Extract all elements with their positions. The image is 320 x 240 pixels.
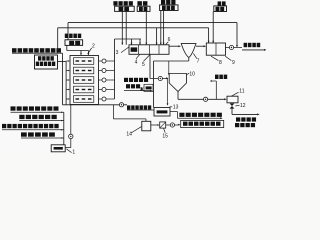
wire: pump discharge bus (114, 39, 116, 99)
tank cell 5 (74, 96, 94, 103)
svg-text:8: 8 (219, 60, 222, 66)
wire: sump to pump 15 (151, 124, 159, 126)
outlet pipe + pump row 3 (99, 79, 115, 81)
svg-text:11: 11 (239, 89, 244, 95)
outlet pipe + pump row 1 (99, 60, 115, 62)
label: hauled away by truck (235, 123, 255, 127)
box 15: sludge pump (160, 122, 166, 128)
label: boiler blowdown water (21, 132, 55, 136)
dosing drop lines from NaClO/alkali label (121, 11, 123, 44)
svg-text:3: 3 (116, 50, 119, 56)
inlet stub row 2 (66, 70, 69, 72)
svg-text:13: 13 (173, 104, 179, 110)
wire: header B drop into mixing basin (156, 28, 158, 45)
wire: box outlet to inlet bus (58, 61, 67, 63)
outlet pipe + pump row 5 (99, 98, 115, 100)
svg-text:2: 2 (92, 44, 95, 50)
label: alkali over acid box (top right) (218, 1, 226, 5)
wire: header B drop into neutralization box (208, 28, 210, 43)
small dosing box with star note (144, 84, 153, 91)
svg-text:14: 14 (126, 131, 132, 137)
label 13 pointer (170, 106, 173, 108)
tank 2: waste water adjusting basin (70, 56, 99, 105)
box 8/9: neutralization tanks (206, 43, 225, 55)
label 1 pointer (66, 149, 71, 153)
label 12 pointer (235, 104, 239, 107)
label: blowdown water (126, 84, 140, 88)
label 14 pointer (131, 127, 141, 133)
dosing drops from coagulant/antiscalant (160, 11, 162, 45)
wire: branch down to sewer line (167, 79, 169, 105)
wire: underline to inlet bus (12, 52, 63, 54)
mixer block in cell 1 (131, 47, 138, 51)
wire: header A down-leg to tank-side alkali box (67, 23, 69, 40)
label 7 pointer (193, 53, 196, 58)
star mark (140, 87, 143, 91)
wire: clarifier 7 sludge line (188, 58, 190, 61)
label: makeup-water treatment system drainage (12, 48, 61, 52)
basin 3-6: mixing & reaction basin (129, 45, 169, 55)
label 10 pointer (187, 73, 189, 74)
svg-text:10: 10 (189, 71, 195, 77)
box 11: sludge dewaterer (227, 96, 238, 103)
label 5 pointer (143, 55, 150, 62)
inlet stub row 4 (66, 89, 69, 91)
svg-text:12: 12 (240, 103, 246, 109)
label 11 pointer (231, 92, 238, 96)
label: NaClO over alkali box feeding mixing basin (113, 1, 132, 5)
svg-text:6: 6 (168, 37, 171, 43)
svg-text:9: 9 (232, 60, 235, 66)
wire: clarifier to box 8/9 arrow (196, 45, 205, 47)
label 2 pointer (88, 48, 92, 54)
label: raw water heater (124, 78, 148, 82)
wire: arrow into sludge drop line (124, 90, 151, 92)
svg-text:15: 15 (162, 134, 168, 140)
dosing drop from acid box into neutralization box (212, 12, 214, 44)
wire: collector down to sump pit (63, 112, 65, 145)
wire: separator outlet to new-plant spray arrow (170, 111, 178, 113)
wire: chemical header line B (58, 27, 209, 29)
label: dewatered (236, 117, 256, 121)
tank cell 2 (74, 67, 94, 74)
box 14: sludge sump (142, 121, 151, 131)
inlet bus (right) (65, 62, 67, 105)
label: coagulant over antiscalant box (161, 0, 175, 4)
wire: basin outlet arrow to clarifier 7 (169, 45, 180, 47)
tank cell 3 (74, 77, 94, 84)
tank cell 1 (74, 58, 94, 65)
wire: thickener underflow to sludge pump (177, 92, 179, 100)
label: to new plant boiler spraying (179, 113, 221, 117)
wire: filtrate return to waste water tank label (215, 81, 217, 99)
dosing drop line from alkali #2 (145, 11, 147, 44)
inlet stub row 1 (66, 60, 69, 62)
wire: feed header into mixing basin (115, 38, 142, 40)
wire: arrow under recycle tank label (242, 49, 265, 51)
tank cell 4 (74, 86, 94, 93)
inlet bus (left) (62, 53, 64, 105)
label: NaClO over alkali box above adjusting tank (65, 34, 81, 38)
wire: pump to old plant box (166, 124, 180, 126)
pit 1: waste water sump (51, 145, 65, 152)
label: plant-area oily drainage (127, 105, 151, 109)
label: air preheater washing water (11, 106, 59, 110)
wire: clarifier sludge branch down into thickener (168, 61, 170, 74)
wire: dewatered sludge drain, trucked away (231, 109, 233, 115)
thickener 10 (169, 74, 186, 92)
wire: chemical header line A (68, 22, 237, 24)
wire: header A down-leg to recycle water line (236, 23, 238, 47)
label 8 pointer (211, 56, 218, 60)
inlet stub row 5 (66, 98, 69, 100)
wire: pump line into thickener 10 (150, 78, 167, 80)
box 13: oil separator (154, 108, 170, 117)
label: boiler cleaning wastewater (19, 115, 56, 119)
wire: dosing down + header over tank (66, 45, 68, 50)
valve 12 below dewaterer (230, 103, 235, 106)
wire: header B left down-leg (57, 28, 59, 53)
wire: underline into separator 13 (127, 109, 154, 111)
label: alkali #2 (137, 1, 147, 5)
wire: oily water drain line with pump (63, 104, 128, 106)
svg-text:4: 4 (135, 59, 138, 65)
svg-text:5: 5 (142, 62, 145, 68)
wire: arrow pointing left under label (211, 80, 217, 82)
wire: treated water to recycle tank with pump (226, 47, 243, 49)
outlet pipe + pump row 2 (99, 70, 115, 72)
label 3 pointer (121, 47, 129, 52)
inlet stub row 3 (66, 79, 69, 81)
label: condensate polishing regeneration wastewater (2, 124, 59, 128)
label 9 pointer (225, 56, 231, 60)
box: regeneration wastewater / laboratory drainage (35, 55, 58, 69)
label 15 pointer (164, 128, 166, 132)
svg-text:7: 7 (197, 58, 200, 64)
label: recycle water tank (244, 43, 261, 47)
label: waste water tank (215, 75, 227, 79)
wire: pit lift pump riser (65, 147, 71, 149)
svg-text:1: 1 (72, 150, 75, 154)
box: to old plant boiler spraying (181, 120, 224, 127)
clarifier 7 (cup shaped) (181, 44, 196, 58)
label 4 pointer (136, 55, 140, 59)
outlet pipe + pump row 4 (99, 89, 115, 91)
wire: branch down from oily line (112, 105, 114, 119)
wire: basin underflow (149, 54, 151, 78)
label 6 pointer (166, 42, 169, 45)
